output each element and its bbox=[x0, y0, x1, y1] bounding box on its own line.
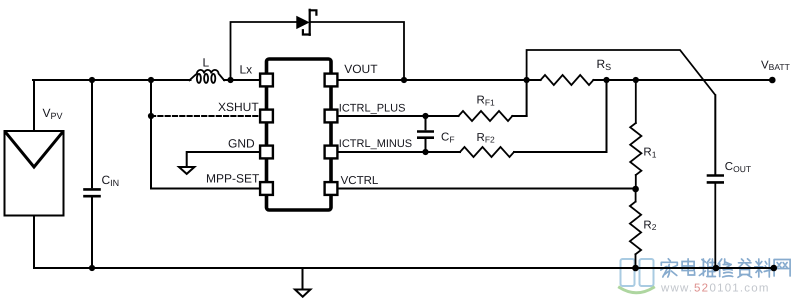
solar panel VPV bbox=[5, 131, 64, 216]
svg-text:XSHUT: XSHUT bbox=[218, 100, 259, 114]
watermark chinese text bbox=[661, 259, 790, 278]
wire: bottom rail bbox=[34, 267, 774, 269]
watermark logo book bbox=[621, 259, 654, 286]
svg-text:RS: RS bbox=[597, 57, 612, 72]
wire: VCTRL to divider bbox=[339, 188, 636, 190]
node CIN bottom bbox=[89, 265, 95, 271]
pin squares left bbox=[260, 74, 337, 195]
watermark url bbox=[660, 282, 770, 294]
wire: diode to VOUT drop bbox=[311, 22, 404, 80]
svg-text:CF: CF bbox=[441, 132, 455, 145]
svg-text:R1: R1 bbox=[643, 147, 656, 160]
node CF top bbox=[422, 113, 428, 119]
inductor L bbox=[189, 70, 224, 83]
pin GND bbox=[260, 146, 273, 159]
维 bbox=[699, 259, 715, 277]
svg-text:ICTRL_PLUS: ICTRL_PLUS bbox=[339, 102, 406, 114]
svg-text:0101.com: 0101.com bbox=[710, 282, 770, 294]
wire: dashed XSHUT line bbox=[151, 115, 259, 117]
pin XSHUT bbox=[260, 110, 273, 123]
node XSHUT branch bbox=[148, 113, 154, 119]
node COUT bottom bbox=[713, 265, 720, 272]
IC body U1 bbox=[267, 59, 332, 210]
wire: RF2 to RS right node bbox=[514, 80, 607, 152]
resistor RS bbox=[541, 75, 594, 85]
svg-text:VOUT: VOUT bbox=[344, 62, 378, 76]
wire: diode branch up bbox=[231, 22, 297, 80]
svg-text:VPV: VPV bbox=[43, 106, 63, 121]
svg-text:52: 52 bbox=[694, 282, 709, 294]
ground symbol at GND pin bbox=[179, 167, 194, 174]
node CF bottom bbox=[422, 149, 428, 155]
wire: left branch vertical x=151 bbox=[151, 80, 259, 189]
pin ICTRL_MINUS bbox=[325, 146, 338, 159]
svg-text:COUT: COUT bbox=[725, 161, 751, 174]
svg-text:Lx: Lx bbox=[240, 63, 253, 77]
resistor RF1 bbox=[459, 111, 513, 121]
svg-text:GND: GND bbox=[228, 137, 255, 151]
wire: GND pin to ground bbox=[187, 152, 259, 167]
家 bbox=[661, 259, 678, 277]
wire: inductor to Lx pin bbox=[224, 79, 259, 81]
node CIN top bbox=[89, 77, 95, 83]
wire: RS right to VBATT bbox=[593, 79, 772, 81]
wire: RS left node down to RF1 bbox=[526, 80, 528, 116]
svg-text:VCTRL: VCTRL bbox=[341, 175, 379, 187]
node R2 bottom bbox=[632, 265, 639, 272]
resistor RF2 bbox=[460, 147, 514, 157]
pin VOUT bbox=[325, 74, 338, 87]
wire: VOUT rail bbox=[339, 79, 541, 81]
pin Lx bbox=[260, 74, 273, 87]
电 bbox=[682, 259, 695, 275]
svg-text:L: L bbox=[203, 56, 210, 70]
node R1 top bbox=[633, 77, 639, 83]
resistor R1 bbox=[630, 80, 641, 189]
wire: ICTRL_MINUS to RF2 bbox=[339, 151, 460, 153]
wire: panel bottom lead bbox=[33, 216, 35, 268]
修 bbox=[718, 259, 733, 277]
wire: top rail to inductor bbox=[33, 79, 191, 81]
node diode return bbox=[401, 77, 407, 83]
capacitor CIN bbox=[85, 80, 100, 268]
wire: ICTRL_PLUS to RF1 bbox=[339, 115, 459, 117]
watermark logo green swoosh bbox=[620, 288, 654, 293]
网 bbox=[774, 260, 790, 277]
capacitor CF bbox=[418, 116, 432, 152]
pin VCTRL bbox=[325, 182, 338, 195]
capacitor COUT bbox=[708, 95, 723, 268]
料 bbox=[755, 259, 772, 277]
wire: RF1 to corner bbox=[512, 115, 526, 117]
node Lx bbox=[227, 77, 233, 83]
wire: panel top lead bbox=[33, 80, 35, 131]
ground symbol bottom bbox=[295, 268, 310, 297]
diode D1 schottky bbox=[297, 10, 317, 35]
solar panel chevron bbox=[6, 132, 63, 167]
node bottom right terminal bbox=[771, 265, 778, 272]
pin MPP-SET bbox=[260, 182, 273, 195]
node VCTRL divider bbox=[632, 186, 639, 193]
node RS right bbox=[603, 77, 609, 83]
node VBATT bbox=[769, 77, 776, 84]
svg-text:RF2: RF2 bbox=[477, 132, 496, 145]
资 bbox=[738, 259, 752, 278]
node RS left bbox=[524, 77, 530, 83]
svg-text:www.: www. bbox=[660, 282, 693, 294]
wire: kelvin overline bbox=[527, 50, 716, 174]
svg-text:RF1: RF1 bbox=[477, 95, 496, 108]
svg-text:R2: R2 bbox=[643, 219, 656, 232]
svg-text:ICTRL_MINUS: ICTRL_MINUS bbox=[339, 138, 412, 150]
resistor R2 bbox=[630, 189, 641, 268]
pin ICTRL_PLUS bbox=[325, 110, 338, 123]
svg-text:VBATT: VBATT bbox=[761, 59, 790, 72]
svg-text:MPP-SET: MPP-SET bbox=[206, 171, 260, 185]
node branch x151 bbox=[148, 77, 154, 83]
svg-text:CIN: CIN bbox=[102, 173, 120, 188]
